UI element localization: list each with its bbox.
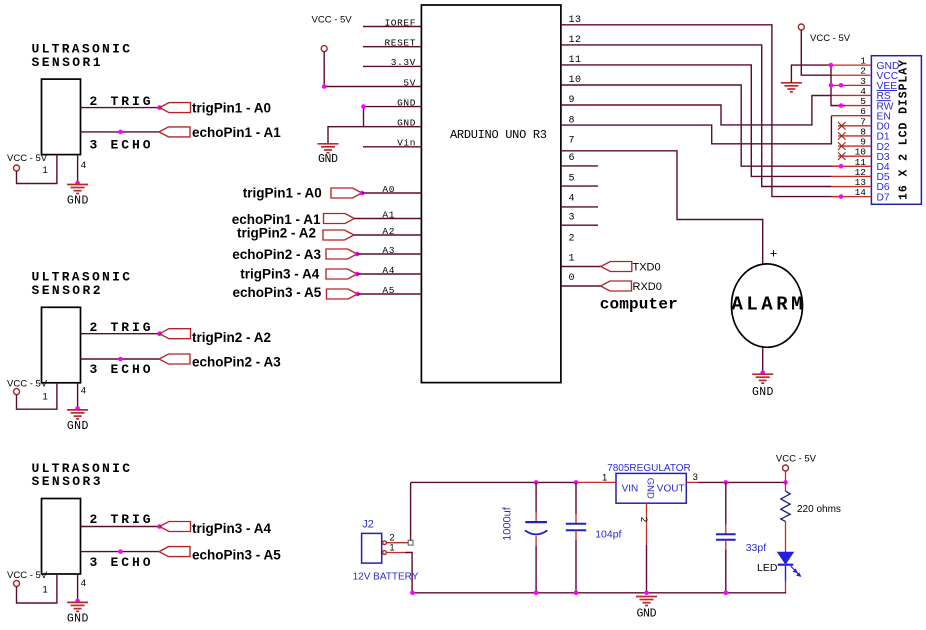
arduino U1 body <box>421 5 561 383</box>
svg-text:12V BATTERY: 12V BATTERY <box>353 572 419 583</box>
svg-text:4: 4 <box>81 160 86 171</box>
wire pin12 to LCD D6 <box>561 45 831 187</box>
wire battery pin1 down <box>405 553 412 593</box>
junction dot rail bottom left <box>410 591 415 596</box>
svg-text:5V: 5V <box>403 77 416 88</box>
svg-text:1: 1 <box>43 165 48 176</box>
svg-text:A5: A5 <box>382 285 395 296</box>
svg-text:GND: GND <box>67 613 89 626</box>
svg-text:computer: computer <box>600 295 678 313</box>
arduino pin 4 stub <box>561 206 598 208</box>
capacitor C2 bottom stub <box>575 530 577 540</box>
svg-text:1: 1 <box>569 254 576 265</box>
svg-text:1: 1 <box>43 392 48 403</box>
sensor3 ECHO wire <box>81 551 160 553</box>
svg-text:14: 14 <box>855 187 867 198</box>
svg-text:echoPin3 - A5: echoPin3 - A5 <box>233 285 322 300</box>
svg-text:16 X 2 LCD DISPLAY: 16 X 2 LCD DISPLAY <box>898 60 911 200</box>
sensor2 pin 1 wire <box>17 383 57 409</box>
ultrasonic sensor2 body <box>42 307 81 383</box>
vcc symbol sensor2 <box>14 389 20 395</box>
port A4 <box>326 269 357 279</box>
svg-text:SENSOR2: SENSOR2 <box>32 283 101 298</box>
arduino pin GND wire <box>363 126 421 128</box>
sensor1 TRIG wire <box>81 107 160 109</box>
capacitor C1 top wire <box>535 482 537 512</box>
junction dot TRIG sensor3 <box>157 524 162 529</box>
port echoPin3 - A5 <box>159 547 190 557</box>
sensor2 ECHO wire <box>81 358 160 360</box>
svg-text:2: 2 <box>638 517 649 522</box>
alarm body <box>732 264 803 347</box>
svg-text:4: 4 <box>81 386 86 397</box>
junction dot port A0 <box>360 191 365 196</box>
svg-text:2: 2 <box>90 94 98 109</box>
junction dot lcd D4 <box>839 164 844 169</box>
led D1 <box>778 552 794 564</box>
svg-text:RXD0: RXD0 <box>633 281 662 293</box>
ultrasonic sensor1 body <box>42 79 81 155</box>
svg-text:4: 4 <box>569 194 576 205</box>
svg-text:D7: D7 <box>877 192 890 203</box>
junction dot sensor1 ground <box>75 181 80 186</box>
junction dot lcd pin1 <box>829 63 834 68</box>
svg-text:7: 7 <box>569 135 576 146</box>
wire pin13 to LCD D7 <box>561 25 841 197</box>
capacitor C1 bottom wire <box>535 546 537 593</box>
vcc symbol sensor3 <box>14 581 20 587</box>
wire gnd to lcd pin1 <box>791 65 831 83</box>
svg-text:VCC - 5V: VCC - 5V <box>776 454 817 465</box>
svg-text:4: 4 <box>81 578 86 589</box>
svg-text:220 ohms: 220 ohms <box>797 504 841 515</box>
svg-text:104pf: 104pf <box>595 529 621 541</box>
wire regulator gnd down <box>646 545 648 593</box>
port RXD0 <box>601 281 632 291</box>
svg-text:A4: A4 <box>382 265 395 276</box>
battery pin 2 circle <box>383 541 387 545</box>
battery pin 1 stub <box>386 552 405 554</box>
ultrasonic sensor3 body <box>42 499 81 575</box>
svg-text:J2: J2 <box>362 519 374 531</box>
ground sensor1 <box>67 185 88 194</box>
capacitor C3 bottom wire <box>725 550 727 593</box>
junction dot sensor2 ground <box>75 406 80 411</box>
svg-text:VCC - 5V: VCC - 5V <box>810 33 851 44</box>
svg-text:trigPin2 - A2: trigPin2 - A2 <box>237 226 316 241</box>
svg-text:7805REGULATOR: 7805REGULATOR <box>607 463 691 474</box>
port trigPin3 - A4 <box>160 522 191 532</box>
svg-text:GND: GND <box>318 153 338 166</box>
svg-text:GND: GND <box>637 607 657 620</box>
sensor1 pin 4 wire <box>77 155 79 183</box>
svg-text:ALARM: ALARM <box>732 294 803 316</box>
resistor R1 top stub <box>785 482 787 491</box>
capacitor C3 bottom stub <box>725 540 727 550</box>
svg-text:SENSOR1: SENSOR1 <box>32 55 101 70</box>
capacitor C1 1000uf plates <box>525 521 547 523</box>
svg-text:3: 3 <box>693 472 698 483</box>
svg-text:3: 3 <box>90 555 98 570</box>
junction dot port A4 <box>355 272 360 277</box>
ground lcd <box>781 83 802 92</box>
junction dot TRIG sensor2 <box>157 331 162 336</box>
wire vcc to 5V <box>323 52 325 87</box>
lcd pin 2 stub <box>831 74 871 76</box>
junction dot lcd RW <box>839 103 844 108</box>
arduino pin A3 wire <box>357 253 421 255</box>
port echoPin1 - A1 <box>159 127 190 137</box>
junction dot lcd VEE a <box>829 83 834 88</box>
regulator pin 3 stub <box>686 481 698 483</box>
port A3 <box>326 249 357 259</box>
svg-text:VOUT: VOUT <box>657 484 685 495</box>
arduino pin RESET wire <box>363 46 421 48</box>
junction dot rail bottom 104pf <box>574 591 579 596</box>
arduino pin A2 wire <box>354 234 421 236</box>
junction dot lcd D7 <box>839 194 844 199</box>
lcd pin 4 stub <box>831 94 871 96</box>
ground near arduino <box>318 144 339 153</box>
svg-text:GND: GND <box>397 97 416 108</box>
wire top rail right <box>698 481 785 483</box>
capacitor C1 top stub <box>535 513 537 523</box>
arduino pin 0 wire <box>561 285 601 287</box>
svg-text:GND: GND <box>752 386 774 399</box>
arduino pin A5 wire <box>358 293 422 295</box>
svg-text:echoPin3 - A5: echoPin3 - A5 <box>192 547 281 562</box>
no-connect X lcd pin 8 <box>838 132 846 140</box>
wire pin10 to LCD D4 <box>561 85 841 166</box>
lcd pin 3 stub <box>831 84 871 86</box>
svg-text:ARDUINO UNO R3: ARDUINO UNO R3 <box>450 128 547 142</box>
svg-text:1000uf: 1000uf <box>502 506 514 541</box>
svg-text:echoPin2 - A3: echoPin2 - A3 <box>232 247 321 262</box>
wire top rail left <box>411 481 576 483</box>
arduino pin GND wire <box>363 106 421 108</box>
wire pin11 to LCD D5 <box>561 65 831 176</box>
led D1 bottom stub <box>785 582 787 593</box>
lcd pin 9 stub <box>838 145 871 147</box>
capacitor C3 top stub <box>725 525 727 535</box>
junction dot rail vcc <box>783 480 788 485</box>
svg-text:3: 3 <box>569 213 576 224</box>
regulator pin 2 stub <box>646 503 648 545</box>
svg-text:+: + <box>770 246 778 261</box>
port echoPin2 - A3 <box>159 354 190 364</box>
battery pin 1 circle <box>383 551 387 555</box>
svg-text:2: 2 <box>90 512 98 527</box>
wire pin8 to LCD EN <box>561 116 831 144</box>
arduino pin 5V wire <box>324 86 421 88</box>
svg-text:trigPin3 - A4: trigPin3 - A4 <box>192 521 272 536</box>
svg-text:A0: A0 <box>382 184 395 195</box>
svg-text:RESET: RESET <box>384 38 416 49</box>
arduino pin 3 stub <box>561 224 598 226</box>
svg-text:IOREF: IOREF <box>384 17 416 28</box>
junction dot lcd VEE b <box>839 83 844 88</box>
wire alarm to ground <box>762 347 764 372</box>
svg-text:trigPin2 - A2: trigPin2 - A2 <box>192 330 271 345</box>
svg-text:5: 5 <box>569 173 576 184</box>
capacitor C3 top wire <box>725 482 727 524</box>
battery J2 body <box>362 533 382 563</box>
regulator U2 body <box>616 473 686 503</box>
svg-text:echoPin2 - A3: echoPin2 - A3 <box>192 355 281 370</box>
svg-text:1: 1 <box>43 584 48 595</box>
wire gnd1 vertical <box>363 107 365 127</box>
sensor1 pin 1 wire <box>17 155 57 184</box>
wire pin9 to LCD RS <box>561 96 831 125</box>
svg-text:trigPin1 - A0: trigPin1 - A0 <box>243 185 322 200</box>
svg-text:trigPin3 - A4: trigPin3 - A4 <box>240 267 320 282</box>
lcd display body <box>871 56 921 205</box>
svg-text:VCC - 5V: VCC - 5V <box>7 378 48 389</box>
resistor R1 220 ohms <box>781 491 790 521</box>
arduino pin 1 wire <box>561 266 601 268</box>
junction dot TRIG sensor1 <box>157 105 162 110</box>
vcc symbol top <box>321 46 327 52</box>
wire lcd pin1 to VEE to RW <box>831 65 845 106</box>
lcd pin 1 stub <box>831 64 871 66</box>
no-connect X lcd pin 7 <box>838 122 846 130</box>
vcc symbol bottom <box>783 465 789 471</box>
port A1 <box>324 214 355 224</box>
port A5 <box>327 289 358 299</box>
capacitor C2 104pf plates <box>566 523 586 525</box>
wire led to rail <box>785 592 788 594</box>
capacitor C2 top wire <box>575 482 577 514</box>
junction dot port A3 <box>355 252 360 257</box>
vcc symbol sensor1 <box>14 165 20 171</box>
svg-text:A1: A1 <box>382 209 395 220</box>
svg-text:LED: LED <box>757 562 778 574</box>
junction dot 5V <box>322 84 327 89</box>
lcd pin 12 stub <box>831 175 871 177</box>
junction dot ECHO sensor3 <box>118 549 123 554</box>
arduino pin Vin wire <box>363 146 421 148</box>
svg-text:Vin: Vin <box>397 138 416 149</box>
svg-text:3: 3 <box>90 137 98 152</box>
sensor3 TRIG wire <box>81 526 160 528</box>
svg-text:SENSOR3: SENSOR3 <box>32 474 101 489</box>
arduino pin 3.3V wire <box>363 65 421 67</box>
svg-text:GND: GND <box>67 420 89 433</box>
sensor2 TRIG wire <box>81 333 160 335</box>
svg-text:TXD0: TXD0 <box>633 261 661 273</box>
sensor2 pin 4 wire <box>77 383 79 409</box>
svg-text:A3: A3 <box>382 245 395 256</box>
regulator pin 1 stub <box>576 481 616 483</box>
junction dot gnd1 <box>361 104 366 109</box>
arduino pin 6 stub <box>561 165 598 167</box>
svg-text:trigPin1 - A0: trigPin1 - A0 <box>192 100 271 115</box>
svg-text:33pf: 33pf <box>746 542 767 554</box>
sensor1 ECHO wire <box>81 131 160 133</box>
svg-text:GND: GND <box>644 478 655 499</box>
wire bottom rail <box>412 592 786 594</box>
svg-text:6: 6 <box>569 153 576 164</box>
origin marker square <box>408 540 413 545</box>
svg-text:3: 3 <box>90 362 98 377</box>
capacitor C1 bottom stub <box>535 536 537 546</box>
port TXD0 <box>601 262 632 272</box>
port A0 <box>331 188 362 198</box>
battery pin 2 stub <box>386 542 408 544</box>
junction dot ECHO sensor1 <box>118 130 123 135</box>
lcd pin 13 stub <box>831 186 871 188</box>
svg-text:2: 2 <box>390 533 395 543</box>
junction dot ECHO sensor2 <box>118 357 123 362</box>
junction dot rail 33pf <box>724 480 729 485</box>
junction dot rail bottom gnd <box>644 591 649 596</box>
lcd pin 11 stub <box>831 165 871 167</box>
no-connect X lcd pin 9 <box>838 142 846 150</box>
svg-text:0: 0 <box>569 273 576 284</box>
vcc stub bottom <box>785 471 787 482</box>
svg-text:VIN: VIN <box>622 484 639 495</box>
junction dot rail 1000uf <box>534 480 539 485</box>
arduino pin 5 stub <box>561 185 598 187</box>
lcd pin 5 stub <box>831 105 871 107</box>
arduino pin A4 wire <box>357 273 421 275</box>
svg-text:GND: GND <box>67 194 89 207</box>
sensor3 pin 4 wire <box>77 574 79 601</box>
junction dot rail 104pf <box>574 480 579 485</box>
vcc symbol lcd <box>798 24 804 30</box>
wire vcc to lcd VCC <box>801 30 831 75</box>
junction dot sensor3 ground <box>75 599 80 604</box>
svg-text:3.3V: 3.3V <box>391 57 416 68</box>
junction dot alarm ground <box>760 370 765 375</box>
capacitor C2 top stub <box>575 514 577 524</box>
resistor R1 bottom stub <box>785 521 787 552</box>
ground sensor2 <box>67 410 88 419</box>
svg-text:2: 2 <box>90 320 98 335</box>
arduino pin A0 wire <box>362 192 421 194</box>
lcd pin 8 stub <box>838 135 871 137</box>
svg-text:VCC - 5V: VCC - 5V <box>7 570 48 581</box>
svg-text:echoPin1 - A1: echoPin1 - A1 <box>192 125 281 140</box>
lcd pin 7 stub <box>838 125 871 127</box>
svg-text:A2: A2 <box>382 226 395 237</box>
svg-text:VCC - 5V: VCC - 5V <box>7 153 48 164</box>
junction dot rail bottom 1000uf <box>534 591 539 596</box>
svg-text:VCC - 5V: VCC - 5V <box>312 15 353 26</box>
arduino pin IOREF wire <box>363 26 421 28</box>
wire battery to rail <box>410 482 412 540</box>
svg-text:1: 1 <box>602 472 607 483</box>
capacitor C2 bottom wire <box>575 540 577 593</box>
lcd pin 10 stub <box>838 155 871 157</box>
port trigPin1 - A0 <box>160 103 191 113</box>
svg-text:2: 2 <box>569 234 576 245</box>
junction dot port A5 <box>355 292 360 297</box>
ground power rail <box>636 597 657 606</box>
ground sensor3 <box>67 602 88 611</box>
lcd pin 14 stub <box>831 196 871 198</box>
port A2 <box>323 230 354 240</box>
wire gnd2 left <box>328 127 364 144</box>
capacitor C3 33pf plates <box>716 533 736 535</box>
led D1 arrows <box>791 566 801 576</box>
ground alarm <box>752 374 773 383</box>
arduino pin A1 wire <box>355 218 422 220</box>
lcd pin 6 stub <box>831 115 871 117</box>
svg-text:GND: GND <box>397 118 416 129</box>
port trigPin2 - A2 <box>160 329 191 339</box>
sensor3 pin 1 wire <box>17 574 57 603</box>
wire pin7 to alarm <box>561 151 763 264</box>
junction dot rail bottom 33pf <box>724 591 729 596</box>
svg-text:1: 1 <box>390 543 395 553</box>
no-connect X lcd pin 10 <box>838 152 846 160</box>
